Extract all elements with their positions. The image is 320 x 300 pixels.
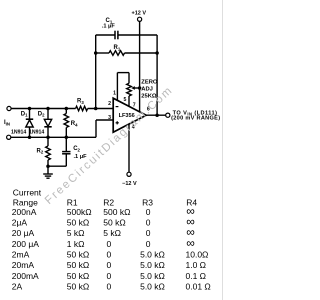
svg-text:(200 mV RANGE): (200 mV RANGE) [171,116,220,122]
svg-text:2: 2 [108,101,111,107]
svg-text:0: 0 [146,207,151,217]
svg-text:20 μA: 20 μA [12,228,35,238]
svg-text:500kΩ: 500kΩ [67,207,92,217]
svg-text:0: 0 [146,239,151,249]
svg-text:50 kΩ: 50 kΩ [67,271,89,281]
svg-text:R4: R4 [71,121,78,127]
svg-text:200 μA: 200 μA [12,239,39,249]
svg-text:0: 0 [107,281,112,291]
svg-text:∞: ∞ [186,236,195,250]
svg-text:−12 V: −12 V [122,181,137,187]
svg-text:50 kΩ: 50 kΩ [103,218,125,228]
svg-text:3: 3 [108,115,111,121]
svg-text:D2: D2 [38,111,45,117]
svg-text:5.0 kΩ: 5.0 kΩ [140,271,165,281]
svg-text:0: 0 [146,228,151,238]
svg-text:1N914: 1N914 [29,130,44,136]
svg-text:D1: D1 [21,111,28,117]
svg-text:R3: R3 [142,197,153,207]
svg-text:200mA: 200mA [12,271,39,281]
svg-text:5.0 kΩ: 5.0 kΩ [140,281,165,291]
svg-text:Current: Current [13,188,42,198]
svg-text:R2: R2 [103,197,114,207]
svg-text:R1: R1 [67,197,78,207]
svg-text:0: 0 [107,239,112,249]
svg-text:0: 0 [107,250,112,260]
svg-text:Range: Range [13,197,38,207]
svg-text:R3: R3 [77,99,84,105]
svg-text:IIN: IIN [4,120,10,126]
svg-text:.1 μF: .1 μF [102,24,116,30]
svg-text:0.01 Ω: 0.01 Ω [186,281,211,291]
svg-text:1: 1 [113,91,116,97]
svg-text:50 kΩ: 50 kΩ [67,281,89,291]
svg-text:2A: 2A [12,281,23,291]
svg-text:2mA: 2mA [12,250,30,260]
svg-text:1.0 Ω: 1.0 Ω [186,260,207,270]
svg-text:+12 V: +12 V [132,11,147,17]
svg-text:0: 0 [107,271,112,281]
svg-text:50 kΩ: 50 kΩ [67,218,89,228]
svg-text:5.0 kΩ: 5.0 kΩ [140,250,165,260]
svg-text:5 kΩ: 5 kΩ [67,228,85,238]
svg-text:20mA: 20mA [12,260,35,270]
svg-text:R1: R1 [114,45,121,51]
svg-text:5.0 kΩ: 5.0 kΩ [140,260,165,270]
svg-text:7: 7 [133,103,136,109]
svg-text:2μA: 2μA [12,218,28,228]
svg-text:ZERO: ZERO [141,80,158,86]
svg-text:200nA: 200nA [12,207,37,217]
svg-text:0: 0 [107,260,112,270]
svg-text:500 kΩ: 500 kΩ [103,207,130,217]
svg-text:1N914: 1N914 [11,130,26,136]
svg-text:C2: C2 [73,146,80,152]
svg-text:0.1 Ω: 0.1 Ω [186,271,207,281]
svg-text:ADJ: ADJ [141,86,153,92]
svg-text:10.0Ω: 10.0Ω [186,250,209,260]
svg-text:0: 0 [146,218,151,228]
svg-text:5 kΩ: 5 kΩ [103,228,121,238]
svg-text:50 kΩ: 50 kΩ [67,260,89,270]
svg-text:1 kΩ: 1 kΩ [67,239,85,249]
svg-text:50 kΩ: 50 kΩ [67,250,89,260]
svg-text:5: 5 [124,97,127,103]
svg-text:R2: R2 [37,148,44,154]
